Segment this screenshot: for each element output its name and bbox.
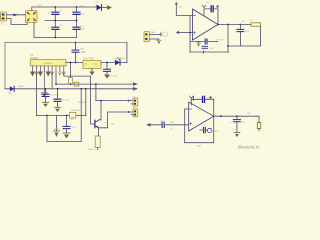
wire regulator output	[101, 62, 127, 64]
wire center tap rail	[45, 20, 77, 22]
pin arrows	[35, 72, 65, 75]
wire feedback drop 2	[213, 116, 215, 143]
wire X1 top pin to bridge	[7, 14, 26, 16]
wire U loop	[47, 116, 81, 142]
arrow end row P	[133, 82, 138, 86]
svg-text:Vout: Vout	[94, 62, 99, 65]
capacitor C14 feedback	[203, 97, 213, 103]
capacitor C9 series	[205, 39, 223, 44]
svg-text:+9V: +9V	[178, 7, 182, 9]
op-amp U4 feedback top wire	[191, 98, 213, 100]
wire feedback corner left	[203, 9, 205, 15]
wire feedback right vertical 2	[213, 99, 215, 116]
arrow end row Q	[133, 87, 138, 91]
op-amp U3 feedback top wire	[204, 8, 218, 10]
svg-text:100n: 100n	[81, 51, 87, 54]
wire feedback right vertical	[217, 9, 219, 25]
connector X3	[131, 107, 138, 117]
power arrow U4	[193, 97, 195, 101]
ground arrow pin6	[46, 72, 51, 77]
arrow mark left	[202, 5, 206, 7]
wire left rail 1	[189, 15, 191, 52]
wire plus input 1	[179, 32, 193, 34]
junction dot bottom rail	[54, 37, 56, 39]
svg-text:DA1 7805: DA1 7805	[83, 58, 94, 61]
resistor on x70.5 drop	[70, 63, 72, 85]
svg-text:R6 4k7: R6 4k7	[74, 110, 82, 112]
wire output rail 1	[218, 24, 251, 26]
wire bridge - output bottom rail	[34, 23, 77, 38]
svg-text:100n: 100n	[81, 29, 87, 31]
ground stub in loop	[56, 116, 58, 132]
svg-text:R5 470: R5 470	[79, 102, 87, 104]
wire diode row Q	[5, 88, 137, 90]
capacitor C6	[101, 62, 119, 79]
wire minus input 2	[185, 108, 189, 110]
svg-text:R9 1M: R9 1M	[217, 40, 224, 42]
wire collector to conn1 row	[100, 101, 102, 120]
wire row P	[56, 83, 137, 85]
wire feedback corner left 2	[190, 99, 192, 105]
wire X1 bottom pin to bridge	[7, 19, 28, 25]
wire pin5 to ground	[43, 66, 45, 93]
power port +9V	[175, 5, 177, 16]
output arrow	[107, 5, 112, 9]
svg-text:C8 47u: C8 47u	[62, 100, 70, 102]
capacitor C16 series	[204, 128, 206, 133]
wire IC to regulator	[66, 62, 83, 64]
op-amp U4	[189, 102, 214, 131]
wire left rail 2	[184, 109, 186, 143]
svg-text:220u: 220u	[54, 128, 60, 131]
capacitor C4	[73, 21, 86, 38]
wire emitter down	[98, 128, 100, 136]
circle mark	[208, 128, 212, 132]
capacitor C3	[73, 6, 86, 21]
wire X4 pin2 to ground	[150, 39, 159, 40]
wire lower feedback 2	[200, 129, 208, 131]
svg-text:DIN-3.5: DIN-3.5	[88, 149, 96, 150]
polarity arrow on input wire	[14, 14, 18, 17]
wire bottom rail 1	[228, 45, 261, 47]
capacitor C5 on rail	[72, 42, 86, 64]
wire pin8 corner to row P	[55, 72, 57, 85]
transistor VT1	[95, 120, 108, 129]
junction dots top rail	[54, 6, 56, 8]
svg-text:100n: 100n	[81, 14, 87, 16]
diode VD2	[95, 2, 102, 10]
connector X4 top	[144, 31, 155, 42]
wire diode to arrow	[102, 7, 108, 9]
wire pin7 drop	[51, 72, 53, 89]
wire pin3 column	[36, 72, 38, 116]
wire bridge + output top rail	[32, 7, 97, 11]
diode VD4	[8, 86, 25, 95]
svg-text:C6 470u: C6 470u	[110, 76, 119, 78]
regulator U2 7805	[83, 58, 101, 69]
svg-text:КД522: КД522	[18, 86, 25, 88]
LED VD3	[115, 57, 120, 65]
capacitor C7 electrolytic	[42, 88, 59, 107]
capacitor C10	[54, 115, 76, 139]
capacitor C15 series	[160, 121, 175, 131]
arrow mark right 2	[209, 96, 212, 99]
resistor R7 series output	[250, 20, 261, 26]
arrow mark left 2	[190, 96, 194, 98]
sheet rail left	[4, 43, 6, 89]
ground arrow pin3	[38, 72, 43, 77]
capacitor C8 electrolytic	[54, 88, 70, 112]
capacitor C1	[48, 7, 63, 21]
resistor R1	[70, 110, 76, 121]
IC U1 LM3915	[30, 54, 66, 66]
connector X1	[1, 12, 7, 26]
regulator ground pin	[91, 69, 93, 72]
wire column A	[85, 89, 87, 116]
wire drop x228	[227, 25, 229, 53]
op-amp U3	[193, 9, 219, 40]
wire minus input 1	[176, 14, 192, 16]
wire LED feed	[126, 43, 128, 63]
junction dots center rail	[54, 20, 56, 22]
wire bottom 1	[190, 51, 229, 53]
svg-text:LM3915: LM3915	[30, 57, 39, 60]
capacitor C13	[237, 25, 250, 47]
wire output rail 2	[214, 115, 259, 117]
wire lower feedback 1	[190, 41, 218, 43]
ground arrow pin1	[30, 72, 35, 77]
capacitor C2	[48, 21, 63, 38]
ground symbol rail 1	[227, 45, 229, 47]
svg-text:tiksound.ru: tiksound.ru	[238, 144, 260, 149]
wire X4 pin1	[150, 34, 162, 36]
sheet rail top	[5, 42, 127, 44]
bridge rectifier VD1	[26, 11, 38, 23]
port arrow input 2	[146, 123, 151, 127]
svg-text:LM3915: LM3915	[44, 63, 53, 65]
wire column to conn1	[96, 84, 133, 101]
IC pins	[33, 66, 64, 72]
arrow mark right	[216, 5, 219, 8]
wire input 2	[151, 124, 189, 126]
resistor R2 vertical	[88, 136, 100, 151]
wire emitter node to conn2	[99, 112, 134, 128]
resistor R18	[257, 116, 260, 131]
capacitor C8 feedback	[206, 2, 213, 12]
resistor on row P	[74, 82, 79, 86]
capacitor C17	[230, 116, 246, 137]
wire right drop 1	[260, 26, 262, 46]
resistor marks below	[202, 46, 214, 50]
wire pin10 corner	[64, 72, 95, 125]
wire bottom row	[36, 115, 85, 117]
connector X2	[131, 96, 138, 106]
wire bottom 2	[185, 142, 214, 144]
